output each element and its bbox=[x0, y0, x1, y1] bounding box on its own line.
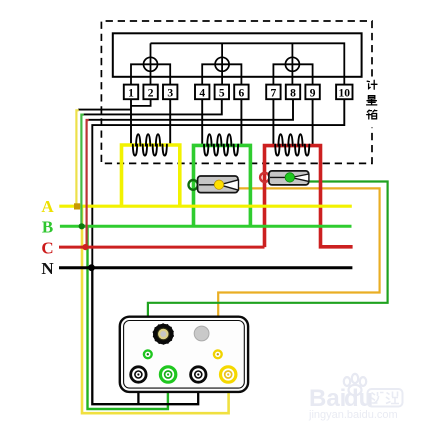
svg-text:8: 8 bbox=[290, 87, 296, 99]
CT2 (phase B current transformer) bbox=[204, 134, 238, 155]
wire: CT secondary riser bbox=[312, 99, 314, 144]
small green terminal bbox=[144, 350, 152, 358]
socket / load device body bbox=[120, 317, 248, 392]
bus B (green phase busbar) bbox=[60, 225, 352, 228]
wire: yellow voltage tap from bus A bbox=[76, 110, 78, 206]
terminal 4 of meter bbox=[195, 85, 209, 100]
svg-text:B: B bbox=[42, 217, 53, 236]
bus C (red phase busbar) bbox=[59, 246, 265, 249]
terminal 3 of meter bbox=[163, 85, 177, 100]
meter element U2 (phase B voltage+current coil) bbox=[215, 57, 229, 71]
wire: red voltage tap from bus C bbox=[87, 120, 89, 247]
socket terminal P4 (yellow) bbox=[221, 367, 236, 382]
CT3 (phase C current transformer) bbox=[275, 134, 309, 155]
baidu jingyan watermark bbox=[308, 374, 403, 421]
terminal 2 of meter bbox=[143, 85, 157, 100]
bus A (yellow phase busbar) bbox=[59, 205, 352, 208]
fuse F2 (with green indicator) clipped on phase wire bbox=[260, 171, 309, 185]
svg-text:10: 10 bbox=[339, 87, 351, 99]
wire: black N load wire down to socket P1/P3 bbox=[92, 268, 198, 405]
svg-text:C: C bbox=[41, 238, 53, 257]
junction on bus A bbox=[74, 203, 80, 209]
wire: black riser socket P1 bbox=[137, 382, 139, 404]
knurled knob terminal on socket bbox=[153, 323, 174, 345]
meter outline (3-phase energy meter) bbox=[113, 33, 362, 77]
grey button on socket bbox=[194, 326, 209, 341]
svg-text:1: 1 bbox=[128, 87, 134, 99]
phase B primary loop through CT2 (green) bbox=[194, 145, 251, 226]
wire: CT secondary riser bbox=[169, 99, 171, 144]
wire: green voltage tap from bus B bbox=[81, 115, 83, 227]
meter element U1 (phase A voltage+current coil) bbox=[144, 57, 158, 71]
CT1 (phase A current transformer) bbox=[133, 134, 167, 155]
wire: green output of fuse F2 to socket green pilot terminal bbox=[148, 182, 388, 352]
svg-text:7: 7 bbox=[271, 87, 277, 99]
wire: green B load wire down to socket P2 bbox=[88, 226, 168, 409]
wire: current bar terminals 1-3 bbox=[131, 64, 170, 84]
bus N (neutral busbar) bbox=[59, 266, 352, 269]
meter element U3 (phase C voltage+current coil) bbox=[285, 57, 299, 71]
svg-text:A: A bbox=[41, 197, 54, 216]
socket terminal P1 (black) bbox=[131, 367, 146, 382]
wire: phase C voltage lead (black run) + drop from terminal 8 bbox=[88, 99, 293, 120]
wire: CT secondary riser bbox=[130, 99, 132, 144]
socket terminal P2 (green) bbox=[160, 367, 175, 382]
wire: phase B voltage lead (black run) + drop from terminal 5 bbox=[83, 99, 222, 114]
terminal 1 of meter bbox=[124, 85, 138, 100]
socket terminal P3 (black) bbox=[191, 367, 206, 382]
wire: current bar terminals 4-6 bbox=[202, 64, 241, 84]
label 计量箱 (metering box) vertical text bbox=[367, 80, 377, 119]
wire: yellow A load wire down to socket P4 bbox=[82, 206, 229, 413]
terminal 9 of meter bbox=[305, 85, 319, 100]
fuse F1 (with yellow indicator) clipped on phase wire bbox=[189, 176, 239, 193]
svg-text:N: N bbox=[41, 259, 54, 278]
svg-text:6: 6 bbox=[239, 87, 245, 99]
phase A primary loop through CT1 (yellow) bbox=[122, 145, 180, 206]
terminal 5 of meter bbox=[215, 85, 229, 100]
svg-text:jingyan.baidu.com: jingyan.baidu.com bbox=[308, 409, 398, 421]
terminal 7 of meter bbox=[266, 85, 280, 100]
metering box enclosure (dashed) bbox=[101, 21, 372, 163]
small yellow terminal bbox=[214, 350, 222, 358]
svg-text:3: 3 bbox=[167, 87, 173, 99]
svg-text:4: 4 bbox=[199, 87, 205, 99]
junction on bus B bbox=[79, 223, 85, 229]
phase C primary loop through CT3 (red) bbox=[265, 146, 353, 248]
wire: voltage-coil common line to terminal 10 bbox=[151, 43, 345, 84]
wire: neutral lead (black) from N bus to terminal 10 bbox=[92, 99, 344, 268]
wire: orange output of fuse F1 to socket yellow pilot terminal bbox=[218, 188, 379, 351]
wire: CT secondary riser bbox=[201, 99, 203, 144]
junction on bus C bbox=[82, 244, 88, 250]
terminal 6 of meter bbox=[234, 85, 248, 100]
terminal 10 of meter bbox=[336, 85, 352, 100]
terminal 8 of meter bbox=[286, 85, 300, 100]
svg-text:Bai: Bai bbox=[309, 385, 346, 412]
junction on bus N bbox=[88, 264, 95, 271]
wire: current bar terminals 7-9 bbox=[273, 64, 312, 84]
svg-text:5: 5 bbox=[219, 87, 225, 99]
wire: CT secondary riser bbox=[272, 99, 274, 144]
svg-text:9: 9 bbox=[310, 87, 316, 99]
wire: link terminal 2 to terminal 1 bbox=[131, 99, 151, 106]
wire: phase A voltage lead (black run) bbox=[78, 109, 131, 111]
wire: CT secondary riser bbox=[240, 99, 242, 144]
svg-text:2: 2 bbox=[148, 87, 154, 99]
